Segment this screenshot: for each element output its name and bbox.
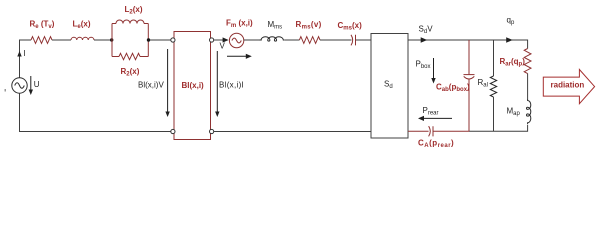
left vertical wire below source [19,93,21,131]
bottom rail Sd to CA capacitor [408,130,429,132]
svg-text:Fm (x,i): Fm (x,i) [226,19,253,30]
bottom rail middle [214,131,371,133]
svg-text:U: U [34,80,40,89]
svg-text:Mms: Mms [268,20,283,31]
resistor R2 [119,53,140,77]
wire Fm to Mms [244,39,262,41]
wire Bl box to Fm with arrowhead [214,37,229,42]
svg-text:CA(prear): CA(prear) [418,139,454,150]
bottom rail left [19,131,171,133]
wire Re to Le [52,39,71,41]
inductor Mms [260,20,285,41]
label and arrow Bl(x,i)I [215,51,244,117]
terminal circle top-right of Bl box [210,38,214,42]
inductor Le [71,20,94,40]
L2 R2 parallel group frame [112,24,148,57]
source U [12,78,27,93]
svg-text:Ral: Ral [478,78,488,89]
svg-text:Pbox: Pbox [416,60,431,71]
svg-text:V: V [220,42,226,51]
resistor Re [30,20,55,44]
svg-text:qp: qp [507,15,515,26]
wire Mms to Rms [285,39,299,41]
svg-text:Le(x): Le(x) [73,20,91,31]
node B junction dot [147,38,150,41]
svg-text:Cms(x): Cms(x) [338,21,363,32]
svg-text:Cab(pbox): Cab(pbox) [436,83,470,94]
svg-text:Rms(v): Rms(v) [296,20,322,31]
svg-text:SdV: SdV [419,25,434,35]
wire Sd to right corner with arrowheads [408,37,528,42]
label Prear with left arrow [418,106,452,121]
radiation arrow [543,70,594,104]
wire Map to bottom rail [469,125,528,131]
capacitor Cms [338,21,363,45]
svg-text:Bl(x,i)I: Bl(x,i)I [219,81,244,90]
capacitor Cab branch [436,40,475,131]
label Pbox with down arrow [416,58,436,84]
label U with down arrow [29,76,40,95]
wire right corner down to Rar [527,40,529,49]
wire Cms to Sd box [356,39,371,41]
inductor Map [507,99,531,124]
terminal circle bottom-left of Bl box [171,129,175,133]
wire node B to Bl box [150,39,171,41]
inductor L2 [116,5,144,24]
label and arrow Bl(x,i)V [138,49,170,117]
svg-text:Bl(x,i): Bl(x,i) [182,81,205,90]
bottom rail CA to Cab junction [433,130,469,132]
transformer box Sd [371,34,408,139]
wire top-left lead [20,39,32,41]
svg-text:Bl(x,i)V: Bl(x,i)V [138,81,164,90]
wire Rms to Cms [320,39,352,41]
left vertical wire with current arrow I [17,40,25,78]
svg-text:Re (Tv): Re (Tv) [30,20,55,31]
svg-text:Map: Map [507,106,521,117]
terminal circle bottom-right of Bl box [210,129,214,133]
node A junction dot [110,38,113,41]
svg-text:I: I [24,49,26,58]
svg-text:Sd: Sd [384,80,393,91]
wire Le to node A [94,39,112,41]
resistor Rms [296,20,322,43]
wire Rar to Map [527,74,529,100]
svg-text:radiation: radiation [551,80,585,89]
resistor Rar [500,49,531,74]
svg-text:L2(x): L2(x) [125,5,143,16]
svg-text:Rar(qp): Rar(qp) [500,57,526,68]
source Fm(x,i) [226,19,253,48]
scan speck left edge [5,89,7,92]
svg-text:R2(x): R2(x) [121,67,140,78]
resistor Ral branch [478,40,497,131]
capacitor CA [418,126,454,149]
label V with velocity arrow [220,42,252,59]
svg-text:Prear: Prear [423,106,439,117]
gyrator box Bl(x,i) [174,32,211,140]
terminal circle top-left of Bl box [171,38,175,42]
